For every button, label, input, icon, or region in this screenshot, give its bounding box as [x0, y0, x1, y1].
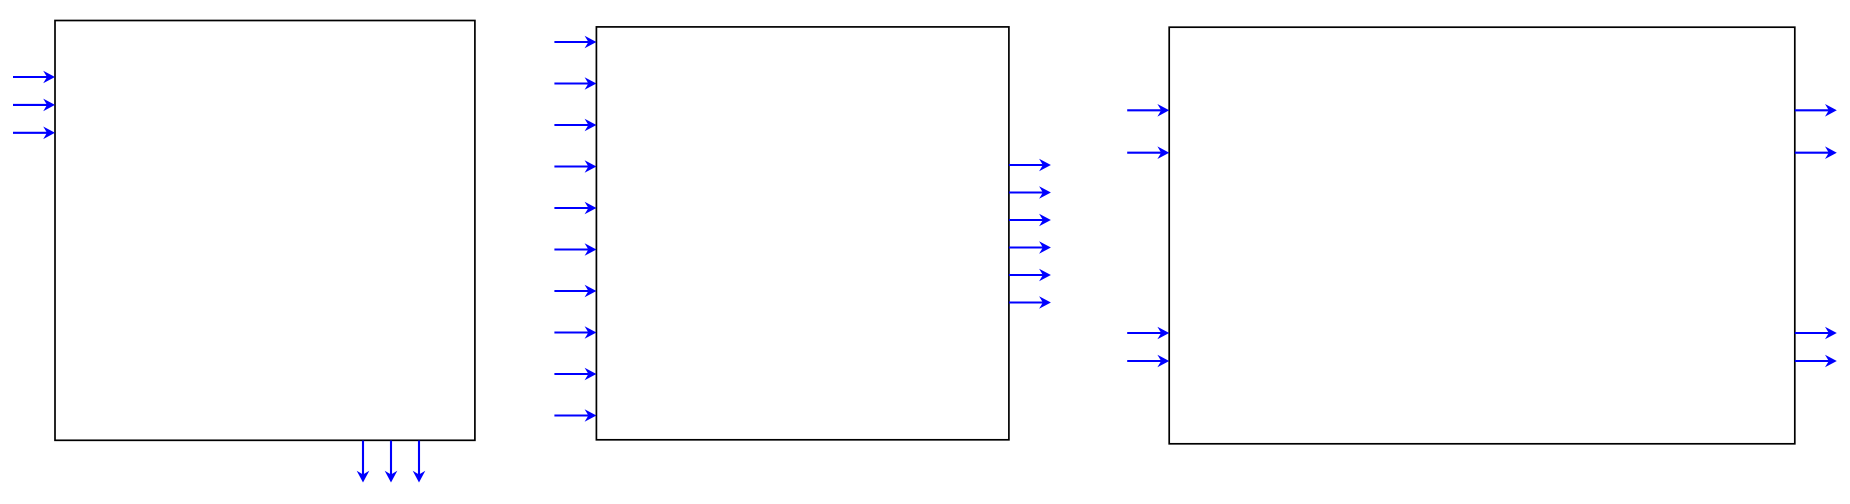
block 2 output arrow 1	[1009, 159, 1051, 172]
block 3 output arrow 2	[1795, 146, 1837, 159]
block 3 input arrow 3	[1127, 327, 1169, 340]
block 3 output arrow 3	[1795, 327, 1837, 340]
block 2 input arrow 6	[554, 243, 596, 256]
block 3 input arrow 4	[1127, 355, 1169, 368]
block 2 input arrow 3	[554, 119, 596, 132]
block 3 output arrow 1	[1795, 104, 1837, 117]
block 2 input arrow 7	[554, 285, 596, 298]
block 1 input arrow 1	[13, 71, 55, 84]
block 2 output arrow 2	[1009, 186, 1051, 199]
block 2	[596, 27, 1009, 440]
block 3 input arrow 1	[1127, 104, 1169, 117]
block 2 input arrow 2	[554, 77, 596, 90]
block 2 output arrow 4	[1009, 241, 1051, 254]
block 2 input arrow 10	[554, 409, 596, 422]
block 2 input arrow 8	[554, 326, 596, 339]
block 2 input arrow 5	[554, 202, 596, 215]
block 1 output arrow 1	[357, 441, 370, 483]
block 1 input arrow 3	[13, 127, 55, 140]
block 3	[1169, 27, 1795, 444]
block 3 input arrow 2	[1127, 146, 1169, 159]
block 1 output arrow 3	[413, 441, 426, 483]
block 2 input arrow 1	[554, 36, 596, 49]
block 1 output arrow 2	[385, 441, 398, 483]
block 2 output arrow 3	[1009, 214, 1051, 227]
block 2 output arrow 6	[1009, 296, 1051, 309]
block 3 output arrow 4	[1795, 355, 1837, 368]
block 2 input arrow 4	[554, 160, 596, 173]
block 1	[55, 21, 475, 441]
block 2 input arrow 9	[554, 368, 596, 381]
block 1 input arrow 2	[13, 99, 55, 112]
block 2 output arrow 5	[1009, 269, 1051, 282]
